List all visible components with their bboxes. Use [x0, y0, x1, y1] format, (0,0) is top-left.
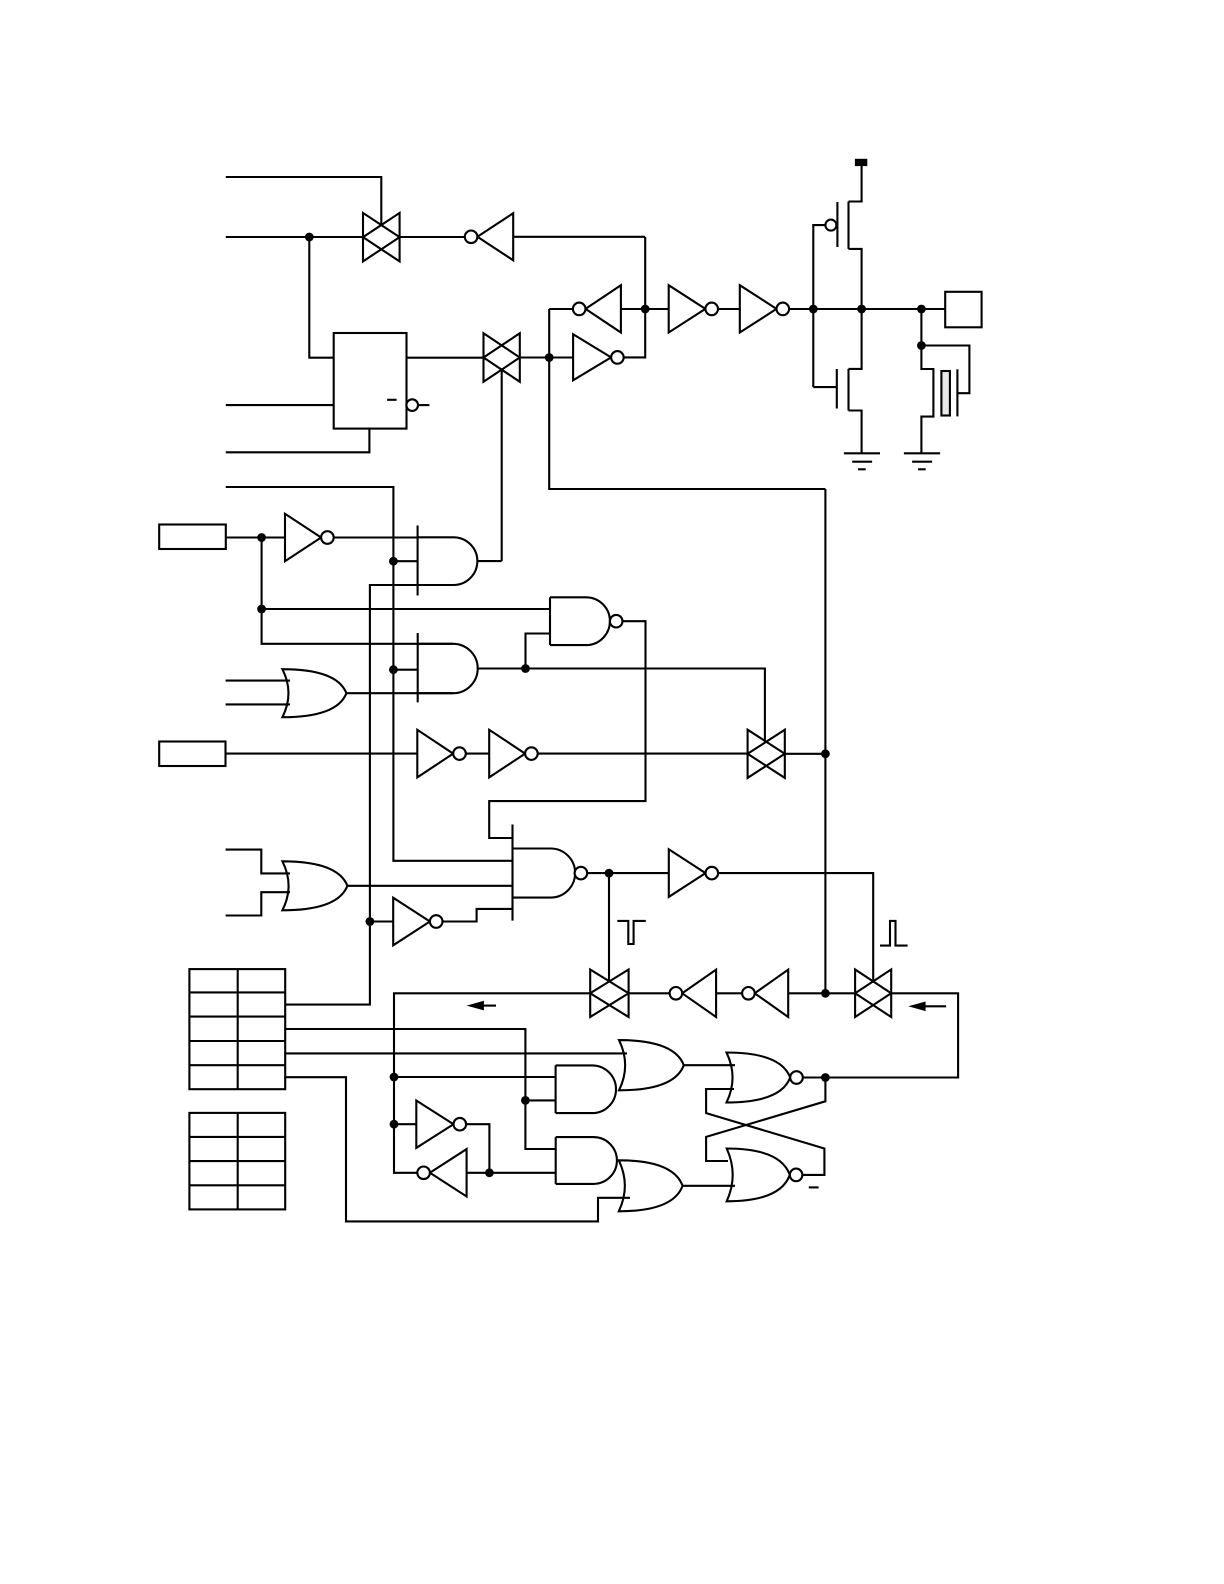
wire U7 to U8: [466, 753, 489, 755]
wire OR1 input 2: [226, 703, 290, 705]
wire TG2 to keeper node: [520, 356, 573, 358]
wire U4 to U5: [718, 308, 740, 310]
nmos Q2: [813, 309, 861, 453]
wire TG3 to U13: [629, 992, 670, 994]
ground GND1: [844, 453, 880, 469]
wire IN1 to U6: [226, 536, 285, 538]
pmos Q1 gate bubble: [825, 220, 836, 231]
wire TG1 to U1 output: [400, 236, 465, 238]
pmos Q1: [837, 166, 861, 309]
node G gate junction: [809, 305, 818, 314]
wire OR2 input 2 step: [226, 892, 290, 915]
wire AND2 bottom edge from OR1: [346, 692, 453, 694]
wire NAND1 output to NAND2 input: [489, 621, 645, 838]
node P pad junction: [917, 305, 926, 314]
nand gate NAND2: [513, 849, 588, 898]
wire AND1 output to TG2 control: [477, 560, 501, 562]
transmission gate TG4: [855, 970, 891, 1018]
node N2 junction: [605, 869, 614, 878]
node Q junction: [821, 1073, 830, 1082]
wire W2 stub to AND2: [393, 669, 417, 671]
node K junction: [545, 353, 554, 362]
wire keeper to U2 output: [549, 308, 573, 310]
wire U11 output to AND4 input: [466, 1124, 489, 1173]
inverter U13: [670, 970, 716, 1017]
nor gate NOR1: [727, 1053, 803, 1103]
or gate OR1: [282, 669, 346, 717]
inverter U10: [669, 849, 718, 897]
and gate AND4: [556, 1137, 617, 1184]
wire TG2 control from AND1 output: [501, 370, 503, 561]
wire net B input: [226, 236, 363, 238]
or gate OR4: [619, 1160, 683, 1211]
node X junction: [641, 305, 650, 314]
wire W1 stub to AND1: [393, 560, 417, 562]
wire ROM1 row5 to OR4 input: [285, 1077, 630, 1221]
wire latch D1 output to TG2: [407, 357, 484, 359]
wire AND2 output to TG5 control: [478, 669, 765, 742]
wire U14 to TG4: [788, 992, 855, 994]
wire L2 to U11 input: [394, 1123, 416, 1125]
power VDD: [855, 159, 867, 166]
and gate AND1 input bar: [417, 526, 419, 596]
wire NOR1 cross to NOR2 input: [706, 1078, 825, 1162]
wire U13 to U14: [716, 992, 742, 994]
wire ROM1 row4 to OR3 input: [285, 1052, 627, 1054]
node IN1b junction: [257, 605, 266, 614]
wire U5 output to pad net: [789, 308, 945, 310]
wire R3 stub to AND3: [525, 1099, 555, 1101]
nand gate NAND2 input bar: [511, 825, 513, 921]
wire IN1 net down to AND2 top: [262, 538, 453, 644]
inverter U4: [669, 285, 718, 332]
or gate OR3: [619, 1040, 684, 1090]
node L3 junction: [485, 1168, 494, 1177]
node B junction: [305, 233, 314, 242]
wire U3 output up to node X: [624, 237, 646, 357]
wire N2 down to TG3 control: [608, 873, 610, 982]
and gate AND3: [556, 1065, 616, 1113]
table ROM2: [189, 1113, 285, 1210]
or gate OR2: [282, 861, 347, 910]
node C cap junction: [917, 341, 926, 350]
wire NOR1 output feedback to TG4: [825, 993, 958, 1077]
nor gate NOR2: [727, 1149, 803, 1202]
node A2 junction: [521, 664, 530, 673]
inverter U12: [417, 1149, 466, 1196]
inverter U2: [573, 285, 621, 332]
wire net A top input: [226, 177, 381, 225]
inverter U11: [416, 1101, 466, 1148]
transmission gate TG5: [748, 730, 785, 778]
inverter U8: [489, 730, 538, 778]
wire tap to U9: [370, 920, 393, 922]
and gate AND2 input bar: [417, 633, 419, 702]
wire L1 to AND3 input: [394, 1076, 556, 1078]
wire IN1 net to NAND1 input: [262, 608, 550, 610]
node L2 junction: [390, 1120, 399, 1129]
latch D1 box: [334, 333, 407, 429]
inverter U3: [573, 334, 624, 380]
pulse label PL2: [880, 921, 908, 946]
latch D1 output bubble: [387, 399, 429, 411]
node Y1 junction: [821, 749, 830, 758]
inverter U6: [285, 514, 334, 561]
table ROM1: [189, 969, 285, 1089]
node R3 junction: [521, 1096, 530, 1105]
wire gate net vertical: [813, 225, 825, 387]
node D drain junction: [857, 305, 866, 314]
pulse label PL1: [617, 921, 646, 944]
wire TG3 output to keeper: [394, 993, 590, 1173]
wire U8 output to TG5: [538, 753, 748, 755]
wire OR2 output to NAND2 input: [347, 885, 512, 887]
wire Y bus vertical: [824, 489, 826, 993]
node Y2 junction: [821, 989, 830, 998]
node W2 junction: [389, 665, 398, 674]
wire OR3 output to NOR1: [684, 1064, 735, 1066]
wire U9 output to NAND2 input: [443, 909, 513, 922]
wire TG5 output to Y bus: [785, 753, 826, 755]
inverter U9: [393, 898, 442, 946]
transmission gate TG2: [484, 333, 520, 382]
inverter U5: [740, 285, 789, 332]
wire U1 input from node X: [513, 236, 645, 238]
and gate AND2: [418, 644, 478, 693]
port IN1: [159, 525, 226, 550]
node L1 junction: [390, 1073, 399, 1082]
wire U10 output to TG4 control: [718, 873, 873, 982]
inverter U7: [417, 730, 466, 778]
wire U6 output to AND1: [334, 536, 418, 538]
wire OR1 input 1: [226, 680, 290, 682]
wire keeper node vertical to Y bus: [549, 309, 825, 489]
wire net W vertical to NAND2: [226, 487, 513, 861]
wire AND1 bottom input from table net: [285, 585, 453, 1005]
node W1 junction: [389, 557, 398, 566]
arrow AR1: [467, 1001, 496, 1011]
transmission gate TG1: [363, 213, 400, 262]
wire NOR1 output: [803, 1076, 826, 1078]
wire latch D1 bottom input: [226, 429, 370, 453]
wire NOR2 cross to NOR1 input: [706, 1089, 824, 1175]
transmission gate TG3: [590, 970, 628, 1018]
label dash NOR2: [809, 1186, 819, 1188]
port IN2: [159, 742, 225, 767]
node INV9 tap junction: [366, 917, 375, 926]
wire pad node down to cap: [920, 309, 922, 346]
wire ROM1 row3 to AND4 input: [285, 1029, 556, 1149]
inverter U14: [742, 970, 788, 1017]
nand gate NAND1: [550, 597, 623, 645]
wire latch D1 input 2: [226, 404, 334, 406]
node IN1 junction: [257, 533, 266, 542]
wire L3 to AND4: [467, 1172, 556, 1174]
arrow AR2: [908, 1002, 946, 1012]
wire OR4 output to NOR2: [683, 1185, 735, 1187]
pad PAD1: [945, 292, 981, 328]
wire node X to U4 input: [621, 308, 669, 310]
wire OR2 input 1 step: [226, 850, 290, 874]
wire A2 step to NAND1 input: [526, 634, 551, 669]
wire NAND2 output to U10: [587, 872, 669, 874]
mos capacitor Q3: [921, 346, 969, 454]
ground GND2: [904, 453, 940, 469]
wire node B down to latch D1: [309, 237, 333, 358]
and gate AND1: [418, 537, 478, 585]
wire IN2 to U7: [226, 753, 418, 755]
inverter U1: [465, 213, 513, 260]
